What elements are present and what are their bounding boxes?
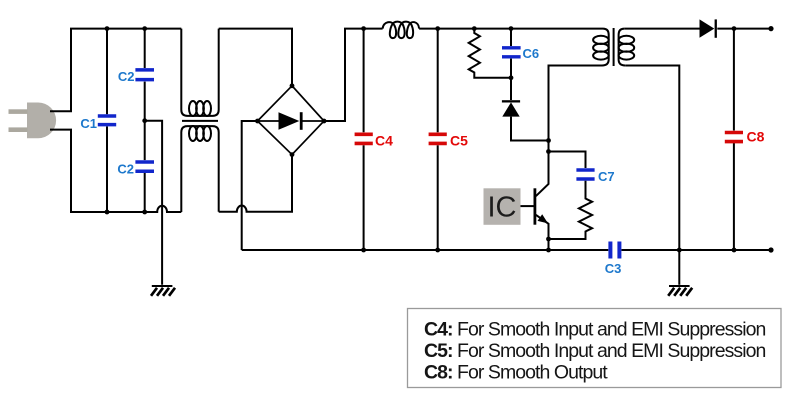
resistor R1 (snubber): [469, 29, 511, 78]
resistor R2 (emitter): [549, 181, 593, 239]
wire choke to bridge AC top: [219, 29, 292, 86]
capacitor C6: [510, 29, 512, 78]
capacitor C2 lower: [144, 173, 146, 212]
svg-text:C2: C2: [118, 69, 135, 84]
IC U1: [484, 188, 521, 225]
svg-text:C4: For Smooth Input and EMI S: C4: For Smooth Input and EMI Suppression: [424, 319, 765, 341]
capacitor C2 upper: [144, 29, 146, 161]
node C2 midpoint: [142, 118, 147, 123]
capacitor C1: [106, 29, 108, 212]
node top rail C1: [105, 26, 110, 31]
transistor Q1: [535, 152, 549, 251]
node rail C5: [435, 26, 440, 31]
wire C2 midpoint to ground: [145, 121, 162, 285]
node neg rail C5: [435, 248, 440, 253]
node clamp-primary: [546, 138, 551, 143]
ground (output): [668, 286, 692, 296]
node bridge left: [255, 119, 260, 124]
negative rail right of C3: [622, 249, 772, 251]
node bottom rail C1: [105, 210, 110, 215]
node bridge right: [322, 119, 327, 124]
negative rail left of C3: [242, 249, 609, 251]
svg-text:IC: IC: [488, 192, 517, 224]
capacitor C4: [363, 29, 365, 250]
wire plug live to top rail: [50, 29, 181, 112]
wire secondary bottom to negative rail: [625, 66, 679, 251]
plug P1: [9, 103, 57, 139]
wire IC to base: [521, 205, 534, 207]
capacitor C8: [733, 29, 735, 250]
svg-text:C5: C5: [450, 133, 468, 149]
diode D1 (clamp): [511, 78, 549, 141]
legend box: [408, 309, 782, 388]
svg-text:C3: C3: [605, 261, 622, 276]
wire bridge DC+ up to positive rail: [324, 29, 383, 121]
node rail C6: [509, 26, 514, 31]
bridge rectifier BR1: [258, 86, 325, 155]
wire transformer primary bottom to collector node: [549, 66, 603, 152]
capacitor C3 (in series, vertical plates): [610, 242, 619, 259]
wire choke to bridge AC bottom with hop over DC- wire: [219, 155, 292, 212]
wire bridge DC- down to negative rail (crosses under hop): [242, 121, 258, 250]
inductor L2: [383, 22, 420, 38]
capacitor C7: [576, 170, 594, 179]
node dots: [105, 26, 774, 253]
svg-text:C8: C8: [747, 129, 765, 145]
svg-text:C2: C2: [117, 162, 134, 177]
transformer T1: [593, 28, 634, 66]
secondary top rail to diode: [624, 28, 699, 30]
node top rail C2: [142, 26, 147, 31]
svg-text:C6: C6: [523, 46, 540, 61]
svg-text:C8: For Smooth Output: C8: For Smooth Output: [424, 362, 608, 384]
wire plug neutral to bottom rail with hop over ground wire: [50, 130, 181, 212]
node emitter-R2: [546, 237, 551, 242]
node C7 tee: [546, 149, 551, 154]
node rail C8: [732, 26, 737, 31]
wire to ground (secondary): [678, 250, 680, 285]
node rail C4: [361, 26, 366, 31]
common-mode choke L1: [181, 29, 218, 212]
svg-text:C7: C7: [598, 169, 615, 184]
capacitor C5: [437, 29, 439, 250]
node rail R1: [472, 26, 477, 31]
node neg rail ground: [677, 248, 682, 253]
node bridge bottom: [290, 152, 295, 157]
svg-text:C1: C1: [80, 116, 97, 131]
wire diode to output+: [717, 28, 771, 30]
svg-text:C4: C4: [375, 133, 393, 149]
node bottom rail C2: [142, 210, 147, 215]
node neg rail C4: [361, 248, 366, 253]
positive rail inductor to transformer: [419, 28, 603, 30]
node neg rail C8: [732, 248, 737, 253]
node R1-C6: [509, 75, 514, 80]
node output+: [768, 26, 773, 31]
wire C7 branch top: [549, 152, 586, 169]
node neg rail emitter: [546, 248, 551, 253]
node output-: [768, 247, 773, 252]
ground (primary Y-cap): [151, 286, 175, 296]
node bridge top: [290, 83, 295, 88]
svg-text:C5: For Smooth Input and EMI S: C5: For Smooth Input and EMI Suppression: [424, 340, 765, 362]
diode D2 (output): [700, 19, 717, 37]
